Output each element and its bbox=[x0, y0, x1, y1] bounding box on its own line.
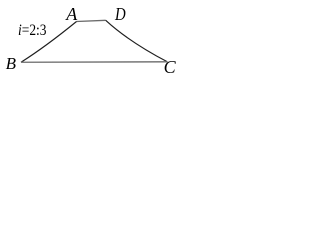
vertex label C bbox=[164, 58, 176, 76]
slope label i=2:3 bbox=[18, 23, 46, 39]
vertex label D bbox=[115, 5, 126, 23]
vertex label A bbox=[66, 5, 77, 23]
trapezoid ABCD outline bbox=[0, 0, 181, 82]
vertex label B bbox=[6, 55, 16, 72]
side AB (left slant, slope i=2:3) bbox=[21, 22, 77, 63]
side AD (top edge) bbox=[77, 20, 106, 21]
side BC (bottom edge) bbox=[21, 61, 167, 63]
side DC (right slant) bbox=[106, 20, 168, 62]
